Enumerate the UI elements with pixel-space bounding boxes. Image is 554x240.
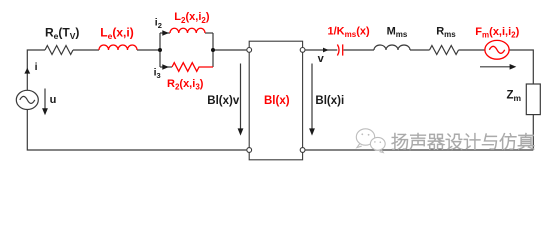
svg-text:u: u — [50, 94, 57, 106]
svg-text:Bl(x): Bl(x) — [264, 95, 290, 107]
svg-text:i: i — [35, 61, 38, 73]
svg-text:v: v — [318, 53, 325, 65]
svg-text:Bl(x)i: Bl(x)i — [315, 95, 344, 107]
svg-text:Bl(x)v: Bl(x)v — [207, 95, 240, 107]
svg-text:Le(x,i): Le(x,i) — [100, 26, 133, 41]
